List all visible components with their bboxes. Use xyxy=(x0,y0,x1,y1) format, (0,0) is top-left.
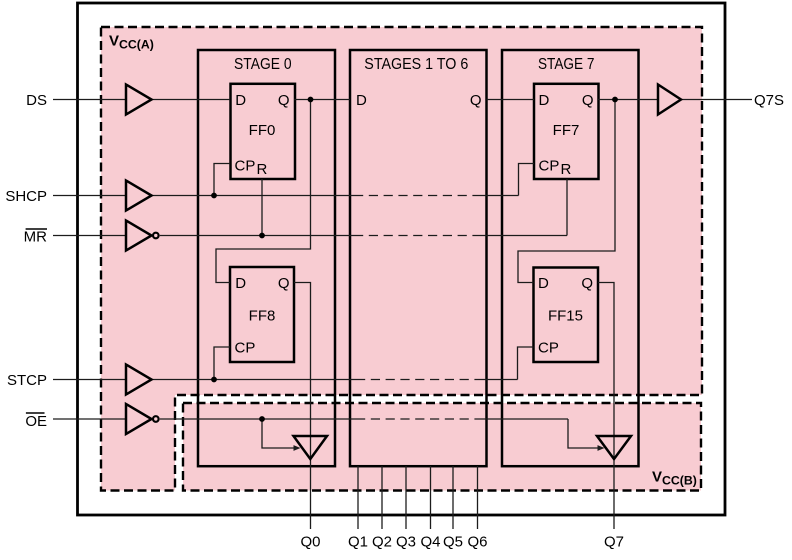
svg-text:DS: DS xyxy=(26,92,47,109)
wire SHCP solid run xyxy=(152,195,355,197)
wire FF0 CP from SHCP xyxy=(214,164,230,196)
node FF7 Q junction xyxy=(612,97,618,103)
wire FF8 Q to Q0 buffer xyxy=(294,283,311,530)
svg-text:Q1: Q1 xyxy=(348,534,368,551)
svg-text:FF8: FF8 xyxy=(249,307,276,324)
wire FF7 Q down to FF15 D xyxy=(518,100,615,283)
wire FF15 Q to Q7 buffer xyxy=(598,283,614,530)
stages 1 to 6 box xyxy=(350,50,487,466)
svg-text:FF0: FF0 xyxy=(249,122,276,139)
stage 0 box xyxy=(198,50,335,466)
wire SHCP input xyxy=(53,195,126,197)
svg-text:CP: CP xyxy=(235,339,256,356)
wire Q7S output xyxy=(681,99,752,101)
outer package border xyxy=(78,3,726,515)
wire MR dashed through stages 1-6 xyxy=(354,235,481,237)
wire FF8 CP from STCP xyxy=(214,347,230,380)
node STCP junction xyxy=(211,377,217,383)
svg-text:Q: Q xyxy=(278,275,290,292)
svg-text:CP: CP xyxy=(539,157,560,174)
wire FF7 R to MR xyxy=(566,179,568,236)
wire DS input xyxy=(53,99,126,101)
svg-text:STAGE 7: STAGE 7 xyxy=(538,56,595,73)
wire FF0 Q to stages 1-6 D xyxy=(294,99,350,101)
svg-text:D: D xyxy=(539,92,550,109)
wire OE solid run xyxy=(160,418,356,420)
svg-text:Q: Q xyxy=(581,275,593,292)
wire SHCP dashed through stages 1-6 xyxy=(354,195,481,197)
buffer STCP xyxy=(126,365,152,395)
wire STCP to stage7 corner xyxy=(479,379,518,381)
wire OE input xyxy=(53,418,126,420)
wire FF0 Q down to FF8 D xyxy=(216,100,311,283)
inverter MR xyxy=(126,221,152,251)
svg-text:Q4: Q4 xyxy=(420,534,440,551)
output buffer Q7 xyxy=(597,436,631,459)
node FF0 Q junction xyxy=(308,97,314,103)
svg-text:FF15: FF15 xyxy=(548,307,583,324)
arrowhead Q7 enable xyxy=(598,445,605,451)
node MR junction xyxy=(259,233,265,239)
wire MR input xyxy=(53,235,126,237)
flip-flop FF8 xyxy=(230,267,294,362)
buffer DS xyxy=(126,85,152,115)
wire STCP input xyxy=(53,379,126,381)
output buffer Q0 xyxy=(294,436,328,459)
svg-text:Q5: Q5 xyxy=(443,534,463,551)
inverter OE xyxy=(126,404,152,434)
wire OE to stage7 corner xyxy=(478,418,568,420)
wire stages 1-6 Q to FF7 D xyxy=(487,99,535,101)
wire SHCP to stage7 corner xyxy=(481,195,519,197)
node SHCP junction xyxy=(211,193,217,199)
svg-text:OE: OE xyxy=(25,413,47,430)
wire FF0 R to MR xyxy=(261,179,263,236)
wire OE enable to Q0 buffer xyxy=(262,419,294,448)
svg-text:STAGE 0: STAGE 0 xyxy=(234,56,292,73)
arrowhead Q0 enable xyxy=(294,445,301,451)
svg-text:R: R xyxy=(561,161,572,178)
svg-text:MR: MR xyxy=(24,229,47,246)
wire DS buffer to FF0 D xyxy=(152,99,231,101)
wire Q4 output xyxy=(430,466,432,529)
svg-text:STCP: STCP xyxy=(7,372,47,389)
wire STCP dashed through stages 1-6 xyxy=(356,379,479,381)
svg-text:Q0: Q0 xyxy=(300,534,320,551)
svg-text:Q3: Q3 xyxy=(396,534,416,551)
svg-text:FF7: FF7 xyxy=(553,122,580,139)
svg-text:CP: CP xyxy=(235,157,256,174)
svg-text:R: R xyxy=(257,161,268,178)
wire STCP solid run xyxy=(152,379,357,381)
svg-text:D: D xyxy=(538,275,549,292)
svg-text:D: D xyxy=(235,275,246,292)
wire MR to FF7 R xyxy=(481,235,567,237)
svg-text:Q: Q xyxy=(582,92,594,109)
wire Q3 output xyxy=(405,466,407,529)
wire FF15 CP from STCP xyxy=(518,347,534,380)
svg-text:Q7S: Q7S xyxy=(754,92,784,109)
buffer SHCP xyxy=(126,181,152,211)
wire FF7 CP from SHCP xyxy=(519,164,535,196)
stage 7 box xyxy=(502,50,639,466)
svg-text:Q: Q xyxy=(470,92,482,109)
svg-text:SHCP: SHCP xyxy=(5,188,47,205)
wire MR solid run xyxy=(160,235,354,237)
node OE junction xyxy=(259,416,265,422)
svg-text:Q2: Q2 xyxy=(372,534,392,551)
flip-flop FF7 xyxy=(534,84,599,179)
wire OE enable to Q7 buffer xyxy=(568,419,598,448)
flip-flop FF15 xyxy=(534,268,599,363)
wire OE dashed through stages 1-6 xyxy=(356,418,478,420)
VCC(B) supply region xyxy=(183,403,701,491)
svg-text:Q6: Q6 xyxy=(467,534,487,551)
buffer Q7S xyxy=(658,85,681,115)
flip-flop FF0 xyxy=(231,84,296,179)
wire Q2 output xyxy=(381,466,383,529)
svg-text:D: D xyxy=(356,92,367,109)
wire Q5 output xyxy=(452,466,454,529)
svg-text:STAGES 1 TO 6: STAGES 1 TO 6 xyxy=(364,56,468,73)
wire Q1 output xyxy=(357,466,359,529)
svg-text:Q: Q xyxy=(278,92,290,109)
wire FF7 Q to output buffer xyxy=(598,99,658,101)
wire Q6 output xyxy=(477,466,479,529)
VCC(A) supply region xyxy=(101,27,702,491)
svg-text:Q7: Q7 xyxy=(604,534,624,551)
svg-text:CP: CP xyxy=(538,339,559,356)
svg-text:D: D xyxy=(235,92,246,109)
